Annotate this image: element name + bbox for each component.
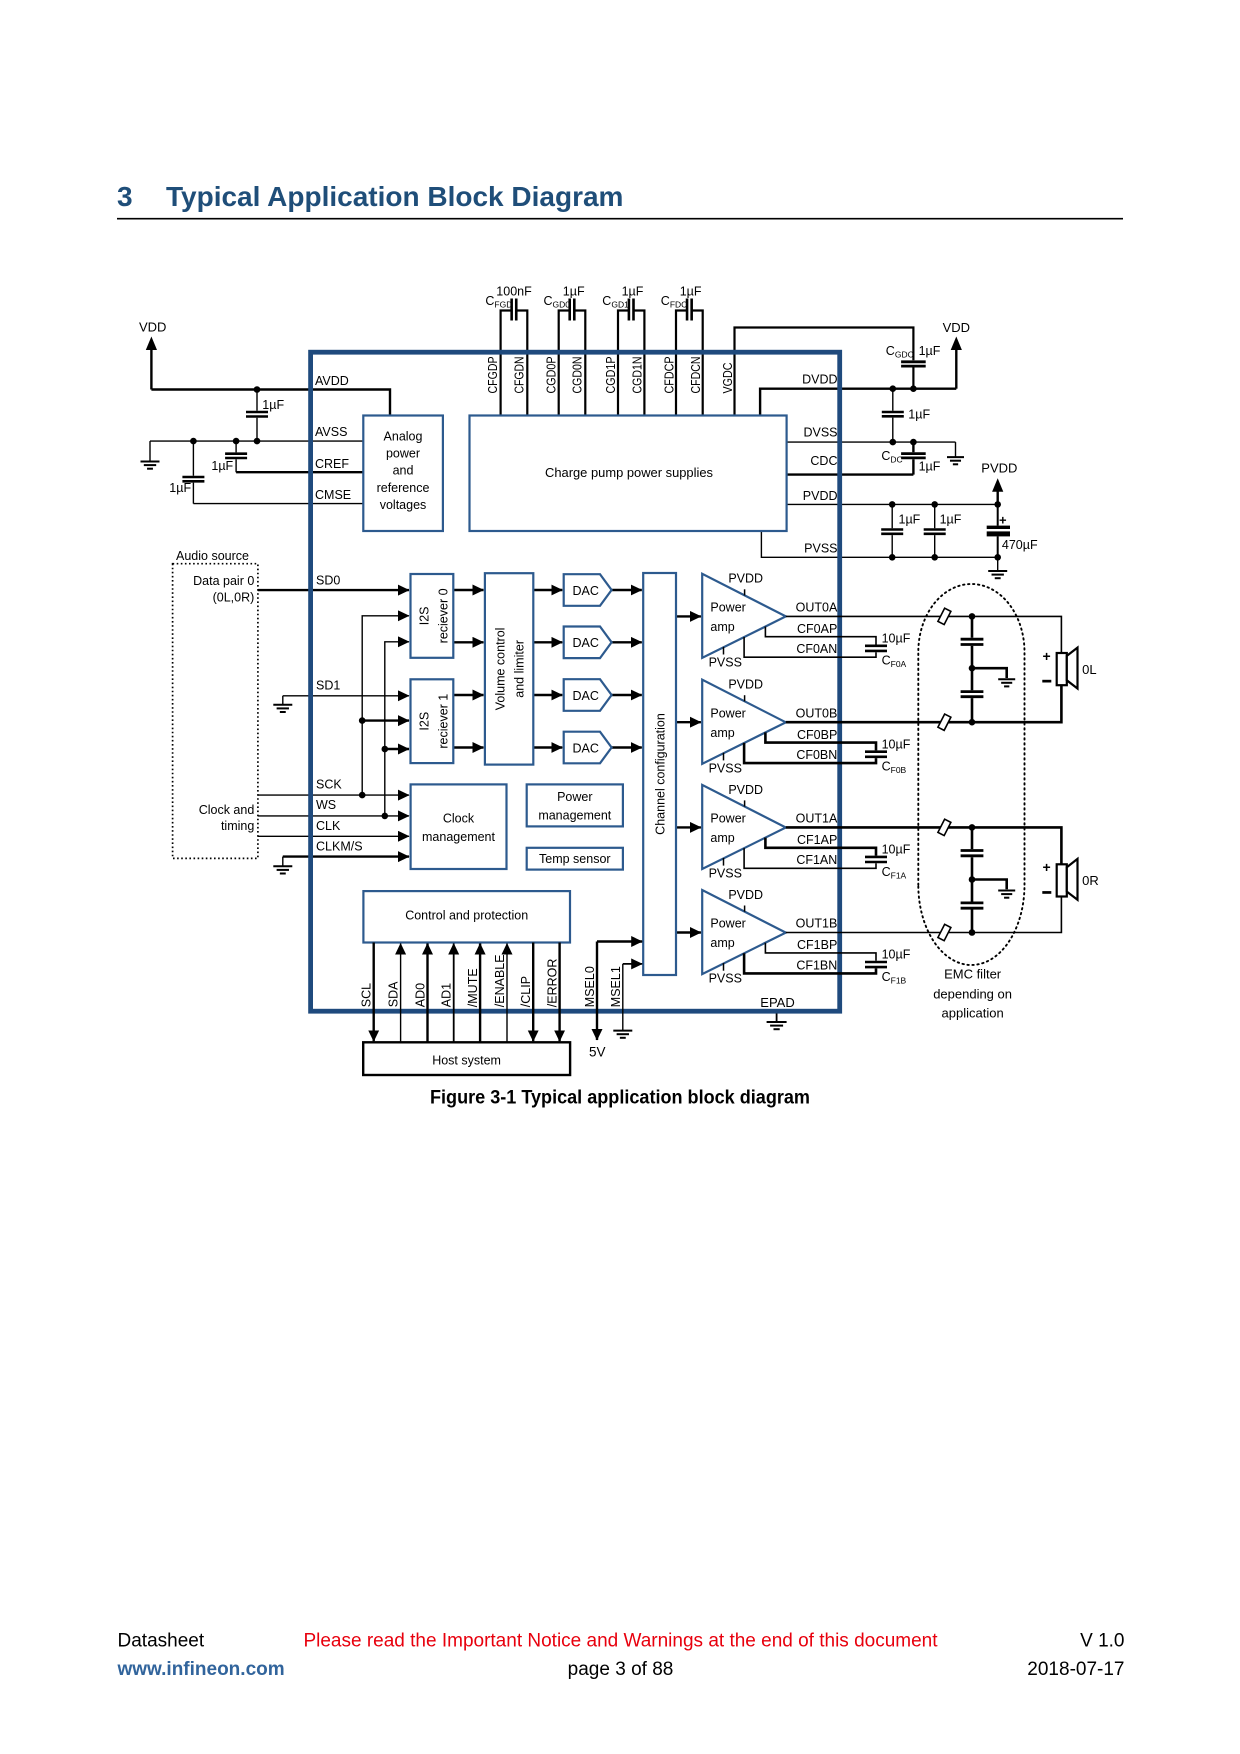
svg-text:PVSS: PVSS xyxy=(709,867,742,881)
svg-text:+: + xyxy=(1043,648,1051,664)
capacitor C EMC 2b xyxy=(961,903,984,908)
svg-text:Power: Power xyxy=(710,706,745,720)
svg-text:+: + xyxy=(1043,859,1051,875)
svg-text:OUT0A: OUT0A xyxy=(796,600,838,614)
wire AVSS ground stub xyxy=(149,441,151,461)
node AVSS junction a xyxy=(190,438,197,445)
svg-text:MSEL1: MSEL1 xyxy=(609,966,623,1007)
svg-text:5V: 5V xyxy=(589,1045,606,1060)
wire EMC gnd branch 1 xyxy=(972,668,1007,678)
svg-text:CDC: CDC xyxy=(810,454,837,468)
wire DVDD xyxy=(760,389,956,416)
wire DVSS xyxy=(787,441,956,443)
svg-text:1µF: 1µF xyxy=(940,513,962,527)
node EMC n1 bot xyxy=(969,719,976,726)
wire EMC gnd branch 2 xyxy=(972,880,1007,890)
wire VDD right lead xyxy=(955,349,957,389)
svg-text:Please read the Important Noti: Please read the Important Notice and War… xyxy=(303,1631,938,1652)
svg-text:/CLIP: /CLIP xyxy=(519,976,533,1007)
wire PVSS tick OUT1A xyxy=(723,858,725,866)
node AVDD junction xyxy=(254,386,261,393)
wire CREF xyxy=(236,471,363,473)
power arrow VDD left xyxy=(146,337,157,351)
svg-text:CGD1P: CGD1P xyxy=(604,357,618,394)
svg-text:Charge pump power supplies: Charge pump power supplies xyxy=(545,466,713,480)
svg-text:CGD1N: CGD1N xyxy=(631,357,645,394)
svg-text:CF0A: CF0A xyxy=(882,654,907,670)
svg-text:SCK: SCK xyxy=(316,777,342,791)
svg-text:Clock and: Clock and xyxy=(199,803,255,817)
wire CF0AP xyxy=(765,627,876,645)
svg-text:CFDCN: CFDCN xyxy=(689,357,703,394)
wire CDC xyxy=(787,473,914,475)
svg-text:reference: reference xyxy=(377,481,430,495)
svg-text:management: management xyxy=(422,830,495,844)
svg-text:CGDC: CGDC xyxy=(886,344,914,360)
wire SD1 xyxy=(283,695,409,697)
svg-text:CF1BP: CF1BP xyxy=(797,938,837,952)
wire I2S out row1 xyxy=(453,589,483,591)
svg-text:Typical Application Block Diag: Typical Application Block Diagram xyxy=(166,181,623,212)
svg-text:CF0B: CF0B xyxy=(882,760,907,776)
heading rule xyxy=(117,218,1123,220)
capacitor C GDC 1uF xyxy=(901,362,926,366)
DAC 3 xyxy=(564,679,612,711)
wire 470uF stubs xyxy=(997,504,999,557)
wire I2S out row2 xyxy=(453,641,483,643)
node PVDD junction c xyxy=(994,501,1001,508)
capacitor C 1uF AVDD-AVSS xyxy=(246,412,268,417)
op-amp power amp OUT1B xyxy=(702,890,786,974)
svg-text:10µF: 10µF xyxy=(882,632,911,646)
svg-text:470µF: 470µF xyxy=(1002,538,1038,552)
svg-text:PVSS: PVSS xyxy=(709,655,742,669)
wire /ENABLE xyxy=(506,944,508,1043)
wire /CLIP xyxy=(532,943,534,1042)
svg-text:SD1: SD1 xyxy=(316,679,340,693)
svg-text:1µF: 1µF xyxy=(908,407,930,421)
wire DAC out row3 xyxy=(612,694,642,696)
wire CGD1 N lead xyxy=(634,311,645,416)
capacitor C DC 1uF xyxy=(901,454,926,458)
svg-text:CF1B: CF1B xyxy=(882,970,907,986)
svg-text:AD0: AD0 xyxy=(414,983,428,1007)
speaker 0L xyxy=(1057,648,1078,689)
capacitor C EMC 2a xyxy=(961,851,984,856)
speaker 0R xyxy=(1057,859,1078,900)
wire CGD0 P lead xyxy=(559,311,570,416)
node PVSS junction b xyxy=(931,554,938,561)
wire OUT0B xyxy=(786,685,1062,722)
svg-text:DAC: DAC xyxy=(573,584,599,598)
ferrite bead row1 xyxy=(938,608,951,624)
svg-text:CFDCP: CFDCP xyxy=(662,357,676,394)
label 0R minus terminal xyxy=(1042,891,1051,894)
block I2S reciever 1 xyxy=(411,679,454,763)
wire WS xyxy=(258,815,409,817)
wire CMSE xyxy=(193,503,363,505)
wire MSEL1 down xyxy=(622,964,624,1030)
wire PVSS tick OUT0A xyxy=(723,647,725,655)
capacitor CGD1 flying cap xyxy=(629,299,634,321)
svg-text:AVSS: AVSS xyxy=(315,425,347,439)
svg-text:CGD0N: CGD0N xyxy=(571,357,585,394)
capacitor C 1uF PV b xyxy=(924,530,946,534)
DAC 1 xyxy=(564,574,612,606)
svg-text:10µF: 10µF xyxy=(882,948,911,962)
svg-text:1µF: 1µF xyxy=(169,481,191,495)
wire WS branch vertical xyxy=(385,642,409,816)
wire PV cap b stubs xyxy=(934,504,936,557)
svg-text:CGD0P: CGD0P xyxy=(545,357,559,394)
wire EMC ladder2 xyxy=(971,827,974,932)
ground EPAD xyxy=(767,1022,787,1029)
svg-text:CDC: CDC xyxy=(881,449,902,465)
svg-text:power: power xyxy=(386,447,420,461)
node EMC n2 bot xyxy=(969,929,976,936)
wire PVSS ground stub xyxy=(997,557,999,570)
svg-text:CREF: CREF xyxy=(315,457,349,471)
svg-text:Power: Power xyxy=(710,917,745,931)
svg-text:2018-07-17: 2018-07-17 xyxy=(1027,1659,1124,1680)
svg-text:amp: amp xyxy=(710,726,734,740)
wire PVDD tick OUT0A xyxy=(744,589,746,595)
svg-text:VDD: VDD xyxy=(943,320,970,335)
audio source box xyxy=(173,564,258,859)
capacitor C F1A 10uF xyxy=(865,857,887,862)
svg-text:CF1AP: CF1AP xyxy=(797,833,837,847)
svg-text:DVSS: DVSS xyxy=(803,426,837,440)
wire PVSS tick OUT1B xyxy=(723,963,725,971)
svg-text:www.infineon.com: www.infineon.com xyxy=(117,1659,285,1680)
svg-text:CF0AP: CF0AP xyxy=(797,622,837,636)
block Charge pump power supplies xyxy=(470,416,787,532)
svg-text:CF1A: CF1A xyxy=(882,865,907,881)
ferrite bead row3 xyxy=(938,819,951,835)
svg-text:DAC: DAC xyxy=(573,741,599,755)
svg-text:SDA: SDA xyxy=(387,981,401,1007)
block Power management xyxy=(527,784,623,826)
svg-text:CF0BP: CF0BP xyxy=(797,728,837,742)
EMC filter boundary xyxy=(918,584,1024,965)
wire channel out row1 xyxy=(676,615,701,617)
wire CF0BN xyxy=(744,743,876,763)
svg-text:CF1BN: CF1BN xyxy=(796,958,837,972)
wire PVDD tick OUT1A xyxy=(744,800,746,806)
capacitor C 1uF DVDD-DVSS xyxy=(882,412,904,416)
wire PVDD tick OUT0B xyxy=(744,695,746,701)
wire EPAD stub xyxy=(776,1014,778,1022)
svg-text:DAC: DAC xyxy=(573,689,599,703)
svg-text:/ERROR: /ERROR xyxy=(546,959,560,1008)
svg-text:Power: Power xyxy=(710,812,745,826)
wire VGDC xyxy=(735,328,914,416)
wire DAC out row1 xyxy=(612,589,642,591)
wire PVSS tick OUT0B xyxy=(723,753,725,761)
svg-text:amp: amp xyxy=(710,936,734,950)
wire CFGD N lead xyxy=(516,311,527,416)
op-amp power amp OUT0A xyxy=(702,574,786,658)
svg-text:Datasheet: Datasheet xyxy=(118,1631,205,1652)
svg-text:1µF: 1µF xyxy=(622,284,644,298)
wire SDA xyxy=(400,944,402,1043)
wire CGDC bottom stub xyxy=(912,368,914,389)
svg-text:Figure 3-1 Typical application: Figure 3-1 Typical application block dia… xyxy=(430,1088,810,1109)
wire channel out row4 xyxy=(676,931,701,933)
capacitor C EMC 1b xyxy=(961,692,984,697)
svg-text:DAC: DAC xyxy=(573,636,599,650)
svg-text:PVDD: PVDD xyxy=(728,678,763,692)
svg-text:PVSS: PVSS xyxy=(804,542,837,556)
wire DVDD cap stubs xyxy=(892,389,894,442)
wire CMSE cap stubs xyxy=(192,441,194,504)
wire EMC ladder1 xyxy=(971,616,974,722)
node PVDD junction a xyxy=(889,501,896,508)
wire CFDC N lead xyxy=(692,311,703,416)
svg-text:Temp sensor: Temp sensor xyxy=(539,852,611,866)
chip outline TAS device xyxy=(311,352,840,1011)
wire CLKM/S xyxy=(283,855,409,857)
op-amp power amp OUT0B xyxy=(702,680,786,764)
block Temp sensor xyxy=(527,848,623,870)
svg-text:0R: 0R xyxy=(1082,873,1099,888)
op-amp power amp OUT1A xyxy=(702,785,786,869)
wire DAC out row2 xyxy=(612,641,642,643)
ground CLKM/S xyxy=(273,866,292,873)
wire SCL xyxy=(373,943,375,1042)
svg-text:PVDD: PVDD xyxy=(728,572,763,586)
svg-text:EMC filter: EMC filter xyxy=(944,967,1002,982)
ground AVSS xyxy=(141,462,160,469)
wire CFGD P lead xyxy=(501,311,512,416)
svg-text:CFGDP: CFGDP xyxy=(486,357,500,394)
block Volume control and limiter xyxy=(485,573,533,764)
wire DAC out row4 xyxy=(612,746,642,748)
capacitor C EMC 1a xyxy=(961,639,984,644)
svg-text:PVDD: PVDD xyxy=(728,783,763,797)
wire WS branch to I2S1 xyxy=(385,748,409,750)
svg-text:voltages: voltages xyxy=(380,498,427,512)
svg-text:1µF: 1µF xyxy=(262,398,284,412)
node DVDD junction b xyxy=(910,385,917,392)
wire CF1AP xyxy=(765,838,876,856)
DAC 4 xyxy=(564,732,612,764)
wire MSEL0 down xyxy=(596,942,598,1041)
svg-text:3: 3 xyxy=(117,181,133,212)
wire MSEL1 to channel xyxy=(623,963,642,965)
svg-text:reciever 1: reciever 1 xyxy=(437,694,451,749)
svg-text:/ENABLE: /ENABLE xyxy=(493,954,507,1007)
ground MSEL1 xyxy=(613,1031,632,1038)
svg-text:and limiter: and limiter xyxy=(513,640,527,698)
wire PVSS xyxy=(761,531,997,557)
wire PVDD xyxy=(787,503,998,505)
svg-text:depending on: depending on xyxy=(933,987,1012,1002)
svg-text:management: management xyxy=(538,808,611,822)
wire SD0 xyxy=(258,589,409,591)
wire channel out row2 xyxy=(676,721,701,723)
label 0L minus terminal xyxy=(1042,680,1051,683)
ground PVSS xyxy=(988,571,1007,578)
wire AD0 xyxy=(426,944,428,1043)
svg-text:I2S: I2S xyxy=(418,712,432,731)
capacitor C 1uF CREF xyxy=(225,454,247,458)
svg-text:amp: amp xyxy=(710,831,734,845)
node EMC n1 mid xyxy=(969,665,976,672)
capacitor CGD0 flying cap xyxy=(570,299,575,321)
svg-text:Audio source: Audio source xyxy=(176,549,249,563)
svg-text:WS: WS xyxy=(316,798,336,812)
capacitor CFGD flying cap xyxy=(512,299,517,321)
wire MSEL0 to channel xyxy=(597,940,642,942)
wire OUT1A xyxy=(786,827,1062,864)
svg-text:amp: amp xyxy=(710,620,734,634)
wire PVDD tick OUT1B xyxy=(744,906,746,912)
wire OUT0A xyxy=(786,616,1062,653)
node PVDD junction b xyxy=(931,501,938,508)
capacitor C 1uF CMSE xyxy=(182,477,204,481)
svg-text:AD1: AD1 xyxy=(440,983,454,1007)
wire AVSS xyxy=(150,440,363,442)
svg-text:PVDD: PVDD xyxy=(728,888,763,902)
node SCK-I2S1 junction xyxy=(359,717,366,724)
wire SCK branch vertical xyxy=(362,616,409,795)
block I2S reciever 0 xyxy=(411,574,454,658)
svg-text:page 3 of 88: page 3 of 88 xyxy=(568,1659,674,1680)
svg-text:(0L,0R): (0L,0R) xyxy=(213,590,255,604)
node AVSS junction c xyxy=(254,438,261,445)
svg-text:CF0AN: CF0AN xyxy=(796,642,837,656)
wire Volume out row2 xyxy=(533,641,562,643)
wire CLK xyxy=(258,835,409,837)
wire cap AVDD stub xyxy=(256,390,258,442)
svg-text:CLKM/S: CLKM/S xyxy=(316,840,363,854)
DAC 2 xyxy=(564,627,612,659)
svg-text:CLK: CLK xyxy=(316,819,341,833)
wire AD1 xyxy=(453,944,455,1043)
node WS-I2S1 junction xyxy=(382,746,389,753)
wire CGD1 P lead xyxy=(618,311,629,416)
wire I2S out row3 xyxy=(453,694,483,696)
svg-text:Analog: Analog xyxy=(384,430,423,444)
wire PVDD rail lead xyxy=(997,491,999,504)
wire VDD left lead xyxy=(150,349,152,390)
svg-text:PVSS: PVSS xyxy=(709,761,742,775)
svg-text:100nF: 100nF xyxy=(496,284,532,298)
wire CF1AN xyxy=(744,848,876,868)
svg-text:application: application xyxy=(942,1006,1004,1021)
wire SD1 ground stub xyxy=(282,696,284,705)
node WS junction xyxy=(382,813,389,820)
svg-text:Data pair 0: Data pair 0 xyxy=(193,574,254,588)
capacitor C F0B 10uF xyxy=(865,752,887,757)
wire CLKM/S ground stub xyxy=(282,857,284,866)
svg-text:SD0: SD0 xyxy=(316,573,340,587)
wire CGD0 N lead xyxy=(574,311,585,416)
svg-text:10µF: 10µF xyxy=(882,737,911,751)
svg-text:1µF: 1µF xyxy=(563,284,585,298)
svg-text:OUT0B: OUT0B xyxy=(796,706,838,720)
capacitor 470uF electrolytic xyxy=(987,526,1010,529)
svg-text:CFGDN: CFGDN xyxy=(512,357,526,394)
wire CF0AN xyxy=(744,637,876,657)
capacitor C F0A 10uF xyxy=(865,646,887,651)
svg-text:Power: Power xyxy=(710,600,745,614)
wire channel out row3 xyxy=(676,826,701,828)
node SCK junction xyxy=(359,792,366,799)
svg-text:I2S: I2S xyxy=(418,607,432,626)
node DVSS junction b xyxy=(910,439,917,446)
wire Volume out row3 xyxy=(533,694,562,696)
svg-text:CF0BN: CF0BN xyxy=(796,748,837,762)
svg-text:Power: Power xyxy=(557,790,592,804)
block Analog power and reference voltages xyxy=(363,416,443,532)
svg-text:EPAD: EPAD xyxy=(760,995,794,1010)
capacitor C 1uF PV a xyxy=(881,530,903,534)
svg-text:VDD: VDD xyxy=(139,320,166,335)
wire CDC stubs xyxy=(912,442,914,475)
svg-text:Clock: Clock xyxy=(443,811,475,825)
node DVSS junction a xyxy=(890,439,897,446)
wire I2S out row4 xyxy=(453,746,483,748)
svg-text:/MUTE: /MUTE xyxy=(466,968,480,1007)
svg-text:SCL: SCL xyxy=(360,983,374,1007)
wire CFDC P lead xyxy=(676,311,687,416)
node PVSS junction a xyxy=(889,554,896,561)
block Control and protection xyxy=(363,891,570,942)
svg-text:+: + xyxy=(999,513,1007,528)
svg-text:AVDD: AVDD xyxy=(315,374,349,388)
node DVDD junction a xyxy=(890,385,897,392)
node PVSS junction c xyxy=(994,554,1001,561)
ground EMC 2 xyxy=(998,891,1015,898)
svg-text:1µF: 1µF xyxy=(899,513,921,527)
ground EMC 1 xyxy=(998,679,1015,686)
svg-text:reciever 0: reciever 0 xyxy=(437,588,451,643)
svg-text:PVDD: PVDD xyxy=(803,489,838,503)
ground DVSS xyxy=(947,457,964,464)
svg-text:OUT1B: OUT1B xyxy=(796,917,838,931)
block Channel configuration xyxy=(643,573,676,975)
svg-text:Volume control: Volume control xyxy=(494,628,508,711)
node EMC n2 top xyxy=(969,824,976,831)
svg-text:Channel configuration: Channel configuration xyxy=(654,713,668,835)
svg-text:PVSS: PVSS xyxy=(709,972,742,986)
wire CF1BN xyxy=(744,953,876,973)
wire CREF cap stubs xyxy=(235,441,237,472)
wire SCK branch to I2S1 xyxy=(362,719,409,721)
wire SCK xyxy=(258,794,409,796)
power arrow PVDD rail xyxy=(992,478,1003,492)
svg-text:V 1.0: V 1.0 xyxy=(1080,1631,1124,1652)
wire Volume out row1 xyxy=(533,589,562,591)
svg-text:PVDD: PVDD xyxy=(981,460,1017,475)
ferrite bead row2 xyxy=(938,714,951,730)
svg-text:OUT1A: OUT1A xyxy=(796,812,838,826)
svg-text:DVDD: DVDD xyxy=(802,373,837,387)
svg-text:1µF: 1µF xyxy=(680,284,702,298)
svg-text:10µF: 10µF xyxy=(882,843,911,857)
wire /MUTE xyxy=(479,944,481,1043)
wire DVSS ground stub xyxy=(955,442,957,457)
capacitor CFDC flying cap xyxy=(687,299,692,321)
power arrow VDD right xyxy=(951,337,962,351)
block Clock management xyxy=(411,784,507,869)
svg-text:timing: timing xyxy=(221,819,254,833)
node EMC n1 top xyxy=(969,613,976,620)
svg-text:Host system: Host system xyxy=(432,1054,501,1068)
ground SD1 xyxy=(273,705,292,712)
